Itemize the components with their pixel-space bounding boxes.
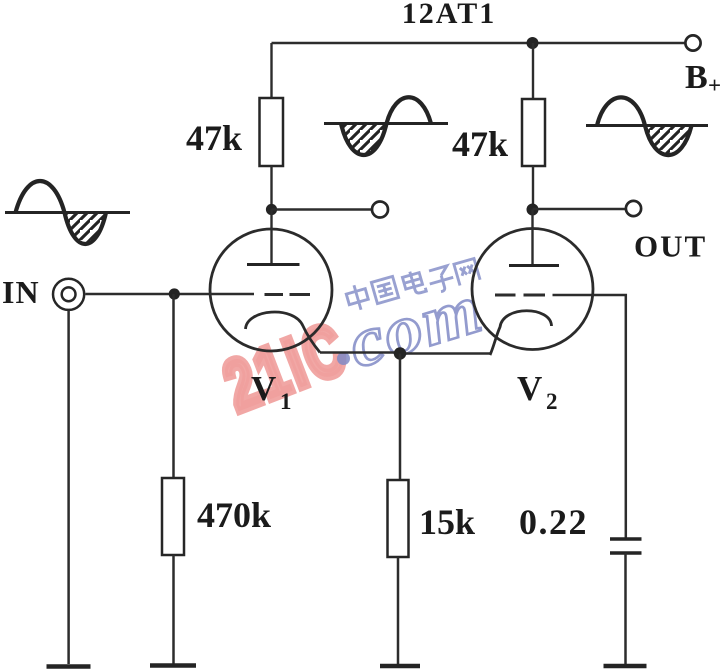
svg-text:470k: 470k xyxy=(197,495,271,535)
wire plate node to OUT terminal xyxy=(533,208,626,210)
svg-text:OUT: OUT xyxy=(634,229,707,264)
resistor R2 47k xyxy=(522,99,545,166)
tube V1 envelope xyxy=(210,229,332,351)
node common cathode junction xyxy=(394,347,406,359)
waveform V1 plate sine (inverted) xyxy=(324,122,448,125)
svg-text:IN: IN xyxy=(2,274,40,310)
svg-text:1: 1 xyxy=(280,389,292,414)
ground G2 xyxy=(150,663,196,668)
resistor R3 470k xyxy=(162,478,184,555)
wire R2 to V2 plate node xyxy=(532,166,534,210)
terminal B+ xyxy=(685,35,700,50)
svg-text:2: 2 xyxy=(546,389,558,414)
node input junction xyxy=(169,288,180,299)
terminal OUT xyxy=(626,201,641,216)
wire plate node to aux terminal xyxy=(272,208,372,210)
tube V1 grid dashes xyxy=(265,293,311,296)
svg-text:15k: 15k xyxy=(419,502,475,542)
wire from rail to R1 xyxy=(270,43,272,98)
wire C1 to ground xyxy=(624,553,627,664)
wire R3 to ground xyxy=(172,555,175,664)
wire V2 grid to coupling capacitor xyxy=(553,295,626,538)
node V2 plate junction xyxy=(527,204,539,216)
wire R1 to V1 plate node xyxy=(270,166,272,210)
resistor R4 15k xyxy=(388,480,409,557)
wire IN to V1 grid xyxy=(86,293,255,296)
svg-text:47k: 47k xyxy=(186,118,242,158)
wire V2 cathode to common node xyxy=(400,352,491,355)
svg-text:12AT1: 12AT1 xyxy=(402,0,496,30)
waveform input sine xyxy=(5,211,130,214)
capacitor C1 0.22 xyxy=(610,539,642,553)
terminal aux (V1 plate test point) xyxy=(372,202,388,218)
svg-text:47k: 47k xyxy=(452,124,508,164)
waveform output sine xyxy=(586,124,708,127)
wire R4 to ground xyxy=(397,557,400,664)
tube V2 envelope xyxy=(472,229,593,350)
svg-text:com: com xyxy=(339,268,491,382)
svg-text:0.22: 0.22 xyxy=(519,502,588,542)
svg-text:V: V xyxy=(251,369,276,408)
tube V2 plate lead xyxy=(531,210,533,266)
node top rail to R2 xyxy=(527,37,539,49)
ground G1 xyxy=(47,664,91,669)
tube V2 grid dashes xyxy=(495,294,545,297)
wire IN terminal to ground xyxy=(67,311,70,665)
wire rail to R2 xyxy=(532,43,534,99)
resistor R1 47k xyxy=(260,98,284,166)
ground G3 xyxy=(380,664,420,669)
svg-text:B: B xyxy=(685,59,708,96)
tube V1 plate xyxy=(247,263,300,266)
wire V1 cathode to common node xyxy=(320,351,400,354)
wire input node to R3 xyxy=(172,294,175,478)
terminal IN xyxy=(53,279,84,310)
ground G4 xyxy=(604,664,647,669)
tube V1 plate lead xyxy=(270,210,272,265)
wire top supply rail xyxy=(272,42,686,44)
svg-text:V: V xyxy=(517,369,542,408)
wire common node to R4 xyxy=(399,354,402,481)
tube V2 plate xyxy=(509,264,559,267)
node V1 plate junction xyxy=(266,204,277,215)
tube V1 cathode xyxy=(246,312,321,352)
tube V2 cathode xyxy=(490,311,552,355)
svg-text:+: + xyxy=(708,73,721,98)
